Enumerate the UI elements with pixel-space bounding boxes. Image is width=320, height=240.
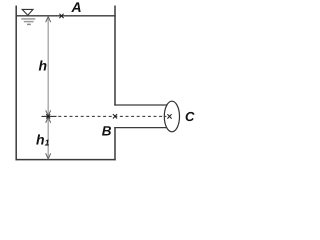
surface hatch 3 <box>27 23 31 25</box>
tank right wall upper <box>114 6 116 106</box>
water surface line <box>16 15 116 17</box>
x mark point B <box>113 114 117 118</box>
x mark at h/h1 junction <box>46 114 50 118</box>
tank bottom <box>16 159 116 161</box>
centerline dashed <box>42 115 57 117</box>
dimension h arrow down <box>46 110 51 116</box>
dimension h shaft <box>47 17 49 116</box>
tank right wall lower <box>114 127 116 160</box>
svg-text:B: B <box>102 124 112 139</box>
x mark point A <box>59 14 63 18</box>
water surface triangle symbol <box>22 9 33 15</box>
svg-text:A: A <box>71 0 82 15</box>
surface hatch 1 <box>21 18 35 20</box>
surface hatch 2 <box>24 21 34 23</box>
dimension h1 arrow down <box>46 153 51 159</box>
pipe top wall <box>114 104 168 106</box>
pipe outlet ellipse <box>164 101 179 132</box>
dimension h1 arrow up <box>46 117 51 123</box>
centerline dashed part <box>58 115 166 117</box>
dimension h arrow up <box>46 17 51 23</box>
svg-text:h: h <box>39 58 48 74</box>
tank left wall <box>15 6 17 161</box>
svg-text:C: C <box>185 109 195 124</box>
dimension h1 shaft <box>47 118 49 159</box>
pipe bottom wall <box>114 127 168 129</box>
x mark point C <box>167 114 171 118</box>
